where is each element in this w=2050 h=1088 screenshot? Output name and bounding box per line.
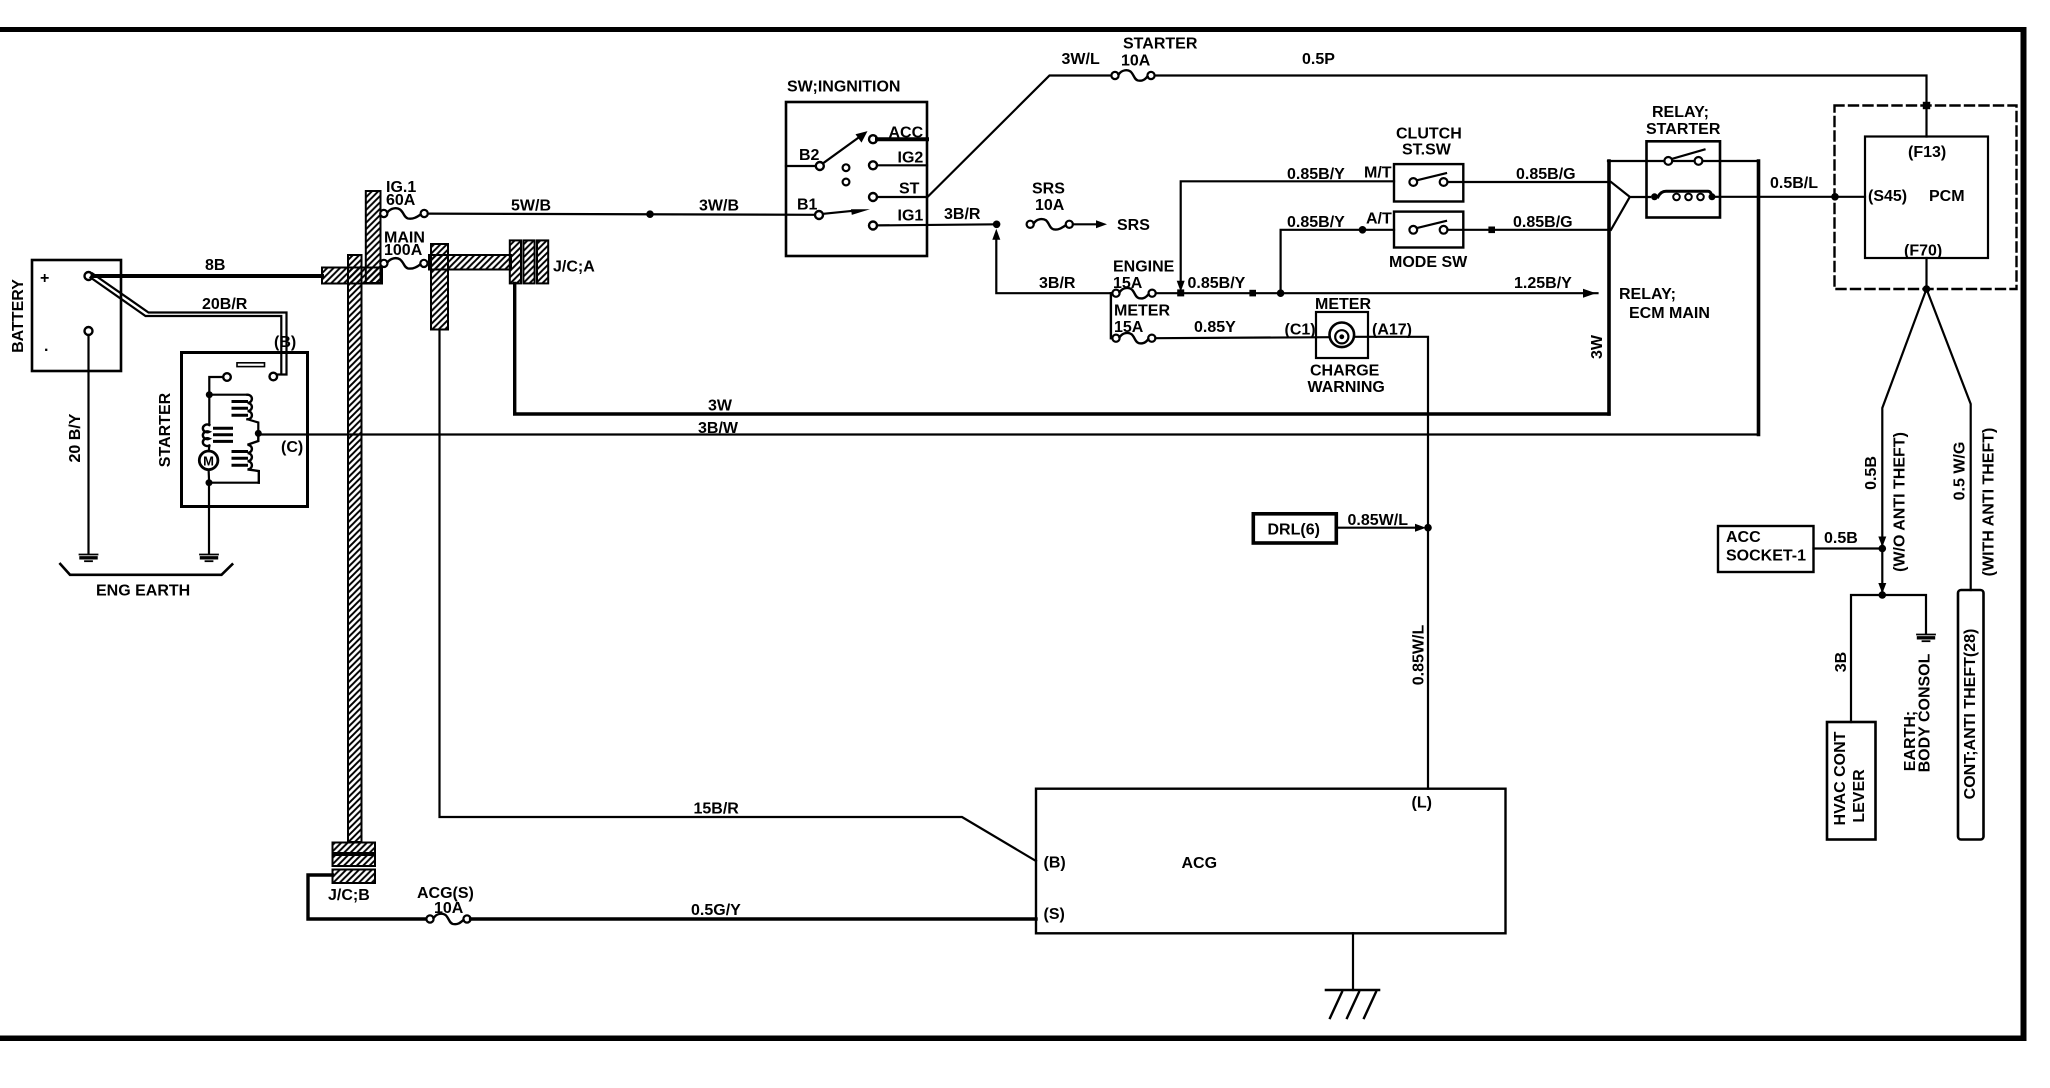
battery negative terminal bbox=[85, 327, 93, 335]
svg-text:J/C;A: J/C;A bbox=[553, 259, 595, 276]
wire 8B battery to junction block bbox=[93, 257, 323, 276]
ignition switch arm B2 to ACC with arrow bbox=[823, 131, 867, 163]
wire 3B/R branch down to engine/meter fuses with up arrow bbox=[992, 229, 1112, 294]
ignition terminal IG2 bbox=[869, 150, 927, 170]
wire 0.5B (W/O ANTI THEFT) diagonal and vertical bbox=[1863, 289, 1926, 572]
wire 0.5 W/G (WITH ANTI THEFT) diagonal and vertical bbox=[1927, 289, 1998, 590]
svg-text:ACC: ACC bbox=[1726, 529, 1761, 546]
wire 5W/B / 3W/B fuse IG.1 to ignition switch B1 bbox=[428, 198, 815, 215]
svg-text:RELAY;: RELAY; bbox=[1619, 286, 1676, 303]
wire node to hold-in winding bbox=[209, 394, 247, 396]
junction dot 0.5B/L at dashed boundary bbox=[1831, 193, 1839, 201]
svg-text:0.85W/L: 0.85W/L bbox=[1411, 625, 1428, 686]
svg-text:DRL(6): DRL(6) bbox=[1268, 522, 1320, 539]
svg-text:ECM MAIN: ECM MAIN bbox=[1629, 305, 1710, 322]
fuse SRS 10A bbox=[1027, 181, 1073, 230]
svg-text:(WITH ANTI THEFT): (WITH ANTI THEFT) bbox=[1981, 428, 1998, 577]
wire 0.85W/L DRL to junction with arrow bbox=[1336, 512, 1426, 532]
svg-text:M/T: M/T bbox=[1364, 165, 1392, 182]
wire J/C;B to ACG(S) fuse bbox=[308, 875, 426, 919]
ignition terminal B1 bbox=[797, 197, 823, 220]
wire hold-in winding to node (C) bbox=[248, 419, 259, 433]
fuse ENGINE 15A bbox=[1112, 259, 1174, 299]
battery positive terminal bbox=[85, 272, 93, 280]
svg-text:(B): (B) bbox=[1044, 855, 1066, 872]
wire (A17) lamp to 0.85W/L vertical down to ACG (L) bbox=[1354, 322, 1428, 789]
junction dot DRL on 0.85W/L vertical bbox=[1424, 524, 1432, 532]
wire 0.5B ACC socket to junction bbox=[1814, 530, 1883, 549]
starter solenoid contact bar bbox=[237, 363, 265, 367]
wire 0.5G/Y fuse to ACG (S) bbox=[471, 902, 1036, 919]
svg-text:0.5P: 0.5P bbox=[1302, 51, 1335, 68]
svg-text:SOCKET-1: SOCKET-1 bbox=[1726, 548, 1806, 565]
svg-text:CHARGE: CHARGE bbox=[1310, 363, 1380, 380]
junction bus bar tall vertical to J/C;B bbox=[348, 255, 362, 842]
junction connector J/C;A hatched columns bbox=[510, 240, 595, 283]
CONT;ANTI THEFT(28) box bbox=[1958, 590, 1984, 840]
svg-text:BODY CONSOL: BODY CONSOL bbox=[1917, 653, 1934, 772]
svg-text:3B/W: 3B/W bbox=[698, 420, 739, 437]
wire IG1 output 3B/R bbox=[877, 206, 997, 225]
svg-text:SRS: SRS bbox=[1032, 181, 1065, 198]
svg-text:10A: 10A bbox=[434, 900, 464, 917]
page frame right border bbox=[2021, 27, 2027, 1041]
wire starter to engine earth bbox=[208, 483, 210, 554]
junction bus bar vertical after MAIN fuse bbox=[431, 244, 448, 330]
svg-text:METER: METER bbox=[1315, 296, 1371, 313]
svg-text:15A: 15A bbox=[1114, 319, 1144, 336]
ground symbol EARTH; BODY CONSOL bbox=[1902, 635, 1935, 773]
down arrow into ACC socket junction bbox=[1878, 537, 1886, 548]
junction dot 5W/B-3W/B splice bbox=[646, 210, 654, 218]
wire 15B/R from bus bar to ACG (B) bbox=[440, 330, 1037, 862]
svg-text:M: M bbox=[203, 453, 214, 468]
charge warning lamp symbol bbox=[1308, 323, 1385, 397]
node (C) junction dot bbox=[255, 430, 262, 437]
starter bottom node dot bbox=[206, 479, 213, 486]
wire 0.5P starter fuse to PCM (F13) bbox=[1155, 51, 1927, 137]
svg-text:RELAY;: RELAY; bbox=[1652, 104, 1709, 121]
svg-text:0.5G/Y: 0.5G/Y bbox=[691, 902, 741, 919]
ground symbol chassis below ACG bbox=[1326, 990, 1379, 1018]
svg-text:J/C;B: J/C;B bbox=[328, 887, 370, 904]
svg-text:3W/L: 3W/L bbox=[1062, 51, 1100, 68]
svg-text:ENGINE: ENGINE bbox=[1113, 259, 1175, 276]
junction dot at F70 dashed boundary bbox=[1923, 285, 1931, 293]
relay starter switch contacts and arm bbox=[1664, 150, 1704, 165]
svg-text:ACC: ACC bbox=[889, 125, 924, 142]
ground symbol starter earth bbox=[200, 555, 218, 562]
svg-text:0.85B/G: 0.85B/G bbox=[1516, 166, 1576, 183]
svg-text:MODE SW: MODE SW bbox=[1389, 254, 1468, 271]
svg-text:15A: 15A bbox=[1113, 275, 1143, 292]
ignition terminal ACC bbox=[869, 125, 927, 144]
wire ST to starter fuse diagonal 3W/L bbox=[928, 51, 1111, 197]
svg-text:0.85B/G: 0.85B/G bbox=[1513, 214, 1573, 231]
svg-text:0.5 W/G: 0.5 W/G bbox=[1952, 442, 1969, 501]
svg-text:ST: ST bbox=[899, 181, 920, 198]
starter solenoid contact right terminal bbox=[270, 373, 278, 381]
svg-text:LEVER: LEVER bbox=[1851, 769, 1868, 823]
starter solenoid contact left terminal bbox=[223, 373, 231, 381]
svg-text:8B: 8B bbox=[205, 257, 225, 274]
junction square dot engine fuse output bbox=[1177, 289, 1184, 296]
junction dot A/T branch bbox=[1277, 289, 1285, 297]
svg-text:1.25B/Y: 1.25B/Y bbox=[1514, 275, 1572, 292]
svg-text:B1: B1 bbox=[797, 197, 818, 214]
clutch switch contacts and arm bbox=[1409, 173, 1447, 186]
svg-text:B2: B2 bbox=[799, 147, 820, 164]
wire 3B/W starter (C) to ECM MAIN relay bbox=[258, 420, 1758, 437]
ACC SOCKET-1 box bbox=[1718, 526, 1814, 572]
svg-text:0.5B/L: 0.5B/L bbox=[1770, 175, 1818, 192]
svg-text:(C): (C) bbox=[281, 439, 303, 456]
svg-text:0.5B: 0.5B bbox=[1824, 530, 1858, 547]
svg-text:SRS: SRS bbox=[1117, 217, 1150, 234]
svg-text:STARTER: STARTER bbox=[157, 392, 174, 467]
fuse ACG(S) 10A bbox=[417, 885, 474, 924]
wire starter windings bottom return bbox=[209, 482, 259, 484]
wire tee to HVAC and body earth bbox=[1851, 595, 1926, 722]
junction dot ACC socket branch bbox=[1879, 545, 1887, 553]
svg-text:3B: 3B bbox=[1833, 652, 1850, 672]
svg-text:A/T: A/T bbox=[1366, 211, 1392, 228]
wire 0.85B/G mode switch to relay chevron bbox=[1448, 214, 1610, 231]
svg-text:WARNING: WARNING bbox=[1308, 379, 1385, 396]
svg-text:ST.SW: ST.SW bbox=[1402, 142, 1452, 159]
battery B01 bbox=[10, 260, 121, 371]
svg-text:STARTER: STARTER bbox=[1646, 121, 1721, 138]
svg-text:0.85Y: 0.85Y bbox=[1194, 319, 1236, 336]
svg-text:0.85B/Y: 0.85B/Y bbox=[1287, 214, 1345, 231]
svg-text:3W/B: 3W/B bbox=[699, 198, 739, 215]
svg-text:(C1): (C1) bbox=[1285, 322, 1316, 339]
svg-text:5W/B: 5W/B bbox=[511, 198, 551, 215]
svg-text:.: . bbox=[44, 338, 48, 355]
junction bus bar horizontal connector to J/C;A bbox=[429, 255, 511, 270]
wire 0.85B/Y riser to mode switch A/T row bbox=[1281, 211, 1394, 294]
starter field winding left coil bbox=[203, 424, 209, 446]
wire 0.85B/Y riser to clutch switch M/T row with down arrow bbox=[1177, 165, 1394, 292]
relay ECM MAIN box outline bbox=[1589, 161, 1758, 435]
relay RELAY;STARTER box bbox=[1646, 104, 1721, 218]
svg-text:60A: 60A bbox=[386, 192, 416, 209]
wire 20B/R battery to starter (B), drawn as hollow double line bbox=[91, 274, 287, 375]
svg-text:ACG: ACG bbox=[1182, 855, 1218, 872]
svg-text:10A: 10A bbox=[1035, 197, 1065, 214]
svg-text:20B/R: 20B/R bbox=[202, 296, 248, 313]
wire 0.5B/L relay to PCM (S45) bbox=[1716, 175, 1866, 197]
svg-text:(A17): (A17) bbox=[1372, 322, 1412, 339]
ignition terminal ST bbox=[869, 181, 927, 202]
ENG EARTH bracket bbox=[60, 564, 232, 600]
wire J/C;A down to 3W bbox=[515, 283, 1609, 414]
PCM box bbox=[1865, 137, 1988, 260]
starter hold-in winding coil bbox=[248, 395, 252, 420]
svg-text:100A: 100A bbox=[384, 242, 423, 259]
svg-text:20 B/Y: 20 B/Y bbox=[67, 413, 84, 462]
wire PCM (F70) down to split junction bbox=[1925, 258, 1927, 289]
DRL(6) box bbox=[1253, 514, 1336, 543]
wire 20 B/Y battery negative to engine earth bbox=[67, 335, 88, 554]
junction dot earth tee bbox=[1879, 591, 1887, 599]
ignition switch SW;INGNITION box bbox=[786, 79, 927, 257]
svg-text:(S45): (S45) bbox=[1868, 188, 1907, 205]
starter hold-in winding core bars bbox=[233, 402, 247, 416]
mode switch MODE SW box bbox=[1389, 212, 1468, 271]
svg-text:0.85W/L: 0.85W/L bbox=[1348, 512, 1409, 529]
wire ACG to chassis ground bbox=[1352, 933, 1354, 990]
starter field winding core bars bbox=[215, 428, 232, 441]
junction dot IG1/SRS branch bbox=[993, 221, 1001, 229]
junction square dot after mode switch bbox=[1488, 227, 1495, 234]
svg-text:0.85B/Y: 0.85B/Y bbox=[1287, 166, 1345, 183]
chevron joining 0.85B/G wires to relay coil bbox=[1611, 182, 1650, 230]
svg-text:15B/R: 15B/R bbox=[694, 801, 740, 818]
svg-text:CONT;ANTI THEFT(28): CONT;ANTI THEFT(28) bbox=[1962, 629, 1979, 800]
mode switch contacts and arm bbox=[1409, 221, 1447, 234]
clutch start switch CLUTCH ST.SW box bbox=[1394, 126, 1463, 202]
ground symbol battery earth bbox=[80, 555, 98, 562]
svg-text:PCM: PCM bbox=[1929, 188, 1965, 205]
wire 1.25B/Y row with right arrow bbox=[1156, 275, 1598, 298]
junction bus bar vertical to fuses bbox=[366, 191, 381, 283]
fusible link IG.1 60A bbox=[380, 179, 428, 219]
ignition terminal IG1 bbox=[869, 208, 923, 230]
svg-text:ENG EARTH: ENG EARTH bbox=[96, 583, 190, 600]
svg-text:0.85B/Y: 0.85B/Y bbox=[1188, 275, 1246, 292]
ignition switch arm B1 to IG1 with arrow bbox=[823, 209, 870, 215]
wire starter contact to windings bbox=[209, 377, 223, 425]
svg-text:METER: METER bbox=[1114, 303, 1170, 320]
svg-text:STARTER: STARTER bbox=[1123, 36, 1198, 53]
junction square dot 0.5P at PCM dashed boundary bbox=[1923, 102, 1930, 109]
junction square dot wire gauge splice bbox=[1249, 290, 1256, 297]
wire junction down with arrow to earth tee bbox=[1878, 549, 1886, 594]
svg-text:(F13): (F13) bbox=[1908, 144, 1946, 161]
svg-text:(S): (S) bbox=[1044, 906, 1065, 923]
wire 0.85Y meter fuse to charge warning lamp (C1) bbox=[1155, 319, 1329, 339]
junction bus bar horizontal at battery feed bbox=[322, 268, 382, 284]
svg-text:CLUTCH: CLUTCH bbox=[1396, 126, 1462, 143]
page frame bottom border bbox=[0, 1036, 2027, 1042]
junction connector J/C;B hatched rows bbox=[328, 843, 375, 905]
svg-text:(F70): (F70) bbox=[1904, 243, 1942, 260]
wire 0.85B/G clutch switch to relay chevron bbox=[1448, 166, 1610, 183]
HVAC CONT LEVER box bbox=[1827, 722, 1876, 840]
starter M01 box bbox=[157, 353, 307, 507]
svg-text:SW;INGNITION: SW;INGNITION bbox=[787, 79, 900, 96]
svg-text:HVAC CONT: HVAC CONT bbox=[1832, 731, 1849, 825]
svg-text:3B/R: 3B/R bbox=[1039, 275, 1076, 292]
svg-text:3W: 3W bbox=[708, 398, 733, 415]
wire vertical linking ENGINE and METER fuse feed bbox=[1110, 293, 1112, 338]
svg-text:(W/O ANTI THEFT): (W/O ANTI THEFT) bbox=[1892, 432, 1909, 572]
svg-text:3W: 3W bbox=[1589, 334, 1606, 359]
relay starter coil bbox=[1651, 191, 1716, 200]
svg-text:3B/R: 3B/R bbox=[944, 206, 981, 223]
page frame top border bbox=[0, 27, 2027, 32]
fuse METER 15A bbox=[1112, 303, 1170, 344]
meter box METER bbox=[1315, 296, 1371, 358]
PCM dashed harness boundary box bbox=[1835, 106, 2017, 290]
svg-text:IG1: IG1 bbox=[898, 208, 924, 225]
starter motor M symbol bbox=[199, 446, 218, 480]
starter winding node dot bbox=[206, 391, 213, 398]
alternator ACG box bbox=[1036, 789, 1506, 934]
ignition terminal B2 bbox=[786, 147, 824, 170]
fuse STARTER 10A bbox=[1111, 36, 1197, 81]
ignition rotor contact dots bbox=[843, 164, 850, 185]
svg-text:(L): (L) bbox=[1412, 795, 1432, 812]
svg-text:(B): (B) bbox=[274, 334, 296, 351]
svg-text:10A: 10A bbox=[1121, 53, 1151, 70]
fusible link MAIN 100A bbox=[380, 230, 427, 269]
starter pull-in winding lower coil bbox=[248, 437, 259, 483]
junction dot on A/T wire bbox=[1359, 226, 1367, 234]
svg-text:BATTERY: BATTERY bbox=[10, 279, 27, 353]
svg-text:0.5B: 0.5B bbox=[1863, 456, 1880, 490]
starter pull-in winding core bars bbox=[233, 452, 247, 466]
svg-text:IG2: IG2 bbox=[898, 150, 924, 167]
svg-text:+: + bbox=[40, 270, 49, 287]
wire SRS fuse output with arrow to SRS bbox=[1073, 217, 1150, 234]
